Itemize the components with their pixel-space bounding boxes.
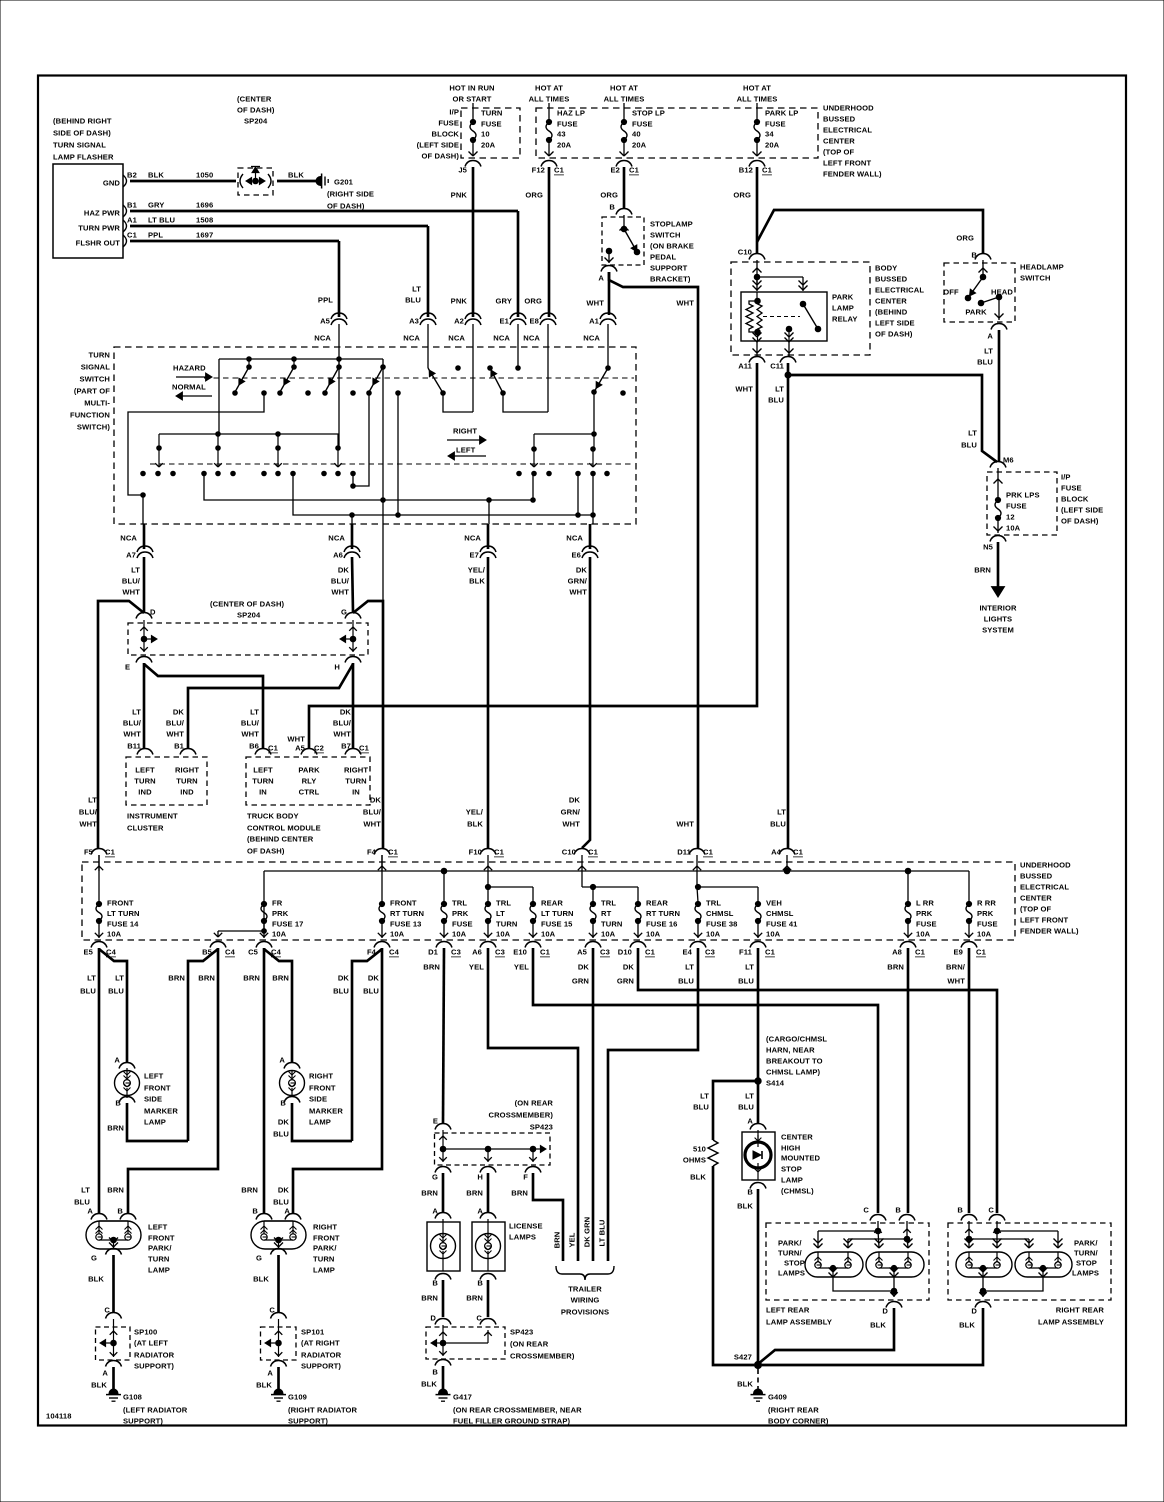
hazard switch levers: [247, 365, 252, 370]
svg-text:A3: A3: [409, 317, 419, 326]
underhood bussed electrical center top box: [536, 108, 818, 158]
svg-text:DK: DK: [338, 566, 350, 575]
svg-text:10A: 10A: [107, 930, 122, 939]
svg-text:BLU/: BLU/: [79, 808, 98, 817]
left rear lamp assembly box: [766, 1223, 929, 1300]
svg-text:LAMPS: LAMPS: [1072, 1269, 1099, 1278]
svg-text:BRN: BRN: [466, 1294, 483, 1303]
svg-text:C3: C3: [451, 948, 461, 957]
svg-text:TRAILER: TRAILER: [568, 1285, 602, 1294]
wire DK BLU right marker B to F4 link: [292, 1103, 352, 1141]
svg-text:YEL/: YEL/: [468, 566, 486, 575]
svg-text:PARK: PARK: [965, 308, 987, 317]
svg-text:10A: 10A: [766, 930, 781, 939]
svg-text:D11: D11: [677, 848, 691, 857]
svg-text:SWITCH: SWITCH: [79, 375, 110, 384]
svg-text:VEH: VEH: [766, 899, 782, 908]
wire ORG from E2 to stoplamp switch: [623, 167, 626, 209]
svg-text:E6: E6: [572, 551, 582, 560]
svg-text:(LEFT RADIATOR: (LEFT RADIATOR: [123, 1406, 188, 1415]
svg-text:BLU: BLU: [738, 1103, 754, 1112]
svg-text:TURN: TURN: [176, 777, 198, 786]
svg-text:INTERIOR: INTERIOR: [979, 604, 1016, 613]
wire branch D to F5: [98, 601, 144, 848]
wire BLK CHMSL B to S427: [757, 1189, 760, 1365]
svg-text:C1: C1: [976, 948, 987, 957]
svg-text:BLU: BLU: [273, 1198, 289, 1207]
trailer wiring provision stub DK GRN from A5: [592, 948, 595, 1261]
svg-text:S427: S427: [734, 1353, 752, 1362]
svg-text:SYSTEM: SYSTEM: [982, 626, 1014, 635]
svg-text:GRY: GRY: [496, 297, 512, 306]
svg-text:BUSSED: BUSSED: [823, 115, 856, 124]
svg-text:BLK: BLK: [91, 1381, 107, 1390]
FR PRK fuse branch to B5: [263, 904, 265, 921]
connector A headlamp switch: [991, 324, 1007, 330]
svg-text:NCA: NCA: [314, 334, 331, 343]
svg-text:ELECTRICAL: ELECTRICAL: [875, 286, 924, 295]
wire BRN/WHT E9 to right rear lamp B: [968, 948, 971, 1213]
svg-text:SIDE: SIDE: [144, 1095, 162, 1104]
wire YEL/BLK E7 to F10: [487, 557, 490, 848]
svg-text:FUSE: FUSE: [977, 920, 998, 929]
svg-text:10A: 10A: [977, 930, 992, 939]
svg-text:YEL: YEL: [469, 963, 484, 972]
svg-text:GRN/: GRN/: [561, 808, 581, 817]
connector F4 C4 out of UBEC: [374, 942, 390, 948]
pole5 contacts: [517, 471, 522, 476]
svg-text:C4: C4: [225, 948, 236, 957]
svg-text:WHT: WHT: [287, 735, 305, 744]
svg-text:G: G: [432, 1173, 438, 1182]
svg-text:BLK: BLK: [288, 171, 304, 180]
wire branch G to F4: [353, 601, 383, 848]
instrument cluster box: [126, 757, 207, 805]
svg-text:RT TURN: RT TURN: [390, 909, 424, 918]
fuse L RR PRK FUSE 10A in UBEC: [905, 901, 910, 906]
svg-text:A: A: [987, 332, 993, 341]
svg-text:BLK: BLK: [469, 577, 485, 586]
svg-text:(ON REAR CROSSMEMBER, NEAR: (ON REAR CROSSMEMBER, NEAR: [453, 1406, 582, 1415]
svg-text:YEL: YEL: [568, 1232, 577, 1247]
connector F10 C1 into UBEC: [480, 849, 496, 855]
svg-text:A: A: [87, 1207, 93, 1216]
svg-text:FUSE 14: FUSE 14: [107, 920, 139, 929]
svg-text:OF DASH): OF DASH): [237, 106, 275, 115]
fuse TRL CHMSL FUSE 38 10A in UBEC: [695, 901, 700, 906]
svg-text:B: B: [432, 1368, 438, 1377]
svg-text:RLY: RLY: [302, 777, 317, 786]
svg-text:LEFT FRONT: LEFT FRONT: [1020, 916, 1069, 925]
svg-text:(LEFT SIDE: (LEFT SIDE: [1061, 506, 1103, 515]
svg-text:HAZARD: HAZARD: [173, 364, 206, 373]
wire BRN C5 branch to right front side marker: [264, 949, 292, 1063]
svg-text:BLU: BLU: [977, 358, 993, 367]
svg-text:WHT: WHT: [166, 730, 184, 739]
svg-text:TURN: TURN: [89, 351, 111, 360]
svg-text:BLU/: BLU/: [363, 808, 382, 817]
svg-text:PRK: PRK: [916, 909, 933, 918]
svg-text:43: 43: [557, 130, 566, 139]
BBC internal node from C10: [756, 260, 758, 283]
svg-text:B2: B2: [127, 171, 137, 180]
svg-text:BLOCK: BLOCK: [1061, 495, 1089, 504]
svg-text:OHMS: OHMS: [683, 1156, 706, 1165]
stoplamp switch output contact A: [606, 248, 612, 254]
svg-text:WHT: WHT: [79, 820, 97, 829]
svg-text:OF DASH): OF DASH): [1061, 517, 1099, 526]
wire WHT stoplamp to D11: [609, 272, 698, 848]
wire LT BLU S414 branch to resistor: [713, 1081, 758, 1140]
wire BLK right lamp G to SP101: [277, 1255, 280, 1313]
wire WHT from A11 to A5 park rly ctrl: [309, 363, 757, 748]
svg-text:WHT: WHT: [241, 730, 259, 739]
svg-text:BLU: BLU: [678, 977, 694, 986]
ground G201 (right side of dash): [316, 174, 328, 189]
svg-text:PARK: PARK: [832, 293, 854, 302]
svg-text:40: 40: [632, 130, 641, 139]
connector F5 C1 into UBEC: [91, 849, 107, 855]
svg-text:FENDER WALL): FENDER WALL): [823, 170, 882, 179]
svg-text:WHT: WHT: [122, 588, 140, 597]
ground G417 (on rear crossmember near fuel filler ground strap): [436, 1389, 451, 1401]
svg-text:WHT: WHT: [363, 820, 381, 829]
svg-text:C5: C5: [248, 948, 259, 957]
svg-text:(AT LEFT: (AT LEFT: [134, 1339, 168, 1348]
wire DK BLU F4 to right front park/turn lamp A: [293, 948, 382, 1213]
svg-text:STOP: STOP: [784, 1259, 805, 1268]
svg-text:SP204: SP204: [237, 611, 261, 620]
fuse TRL PRK FUSE 10A in UBEC: [441, 901, 446, 906]
svg-text:OFF: OFF: [943, 288, 959, 297]
svg-text:S414: S414: [766, 1079, 785, 1088]
svg-text:PARK: PARK: [298, 766, 320, 775]
svg-text:LEFT SIDE: LEFT SIDE: [875, 319, 915, 328]
svg-text:SWITCH): SWITCH): [77, 423, 111, 432]
wire BRN F to trailer provisions: [533, 1173, 563, 1261]
svg-text:(ON BRAKE: (ON BRAKE: [650, 242, 694, 251]
u-link lever tip to ORG: [503, 393, 548, 412]
connector M6: [990, 462, 1006, 468]
svg-text:SUPPORT): SUPPORT): [301, 1362, 341, 1371]
svg-text:BLU/: BLU/: [241, 719, 260, 728]
svg-text:PRK: PRK: [272, 909, 289, 918]
svg-text:G: G: [256, 1254, 262, 1263]
fuse REAR RT TURN FUSE 16 10A in UBEC: [635, 901, 640, 906]
svg-text:PRK: PRK: [452, 909, 469, 918]
svg-text:1697: 1697: [196, 231, 213, 240]
svg-text:C1: C1: [388, 848, 399, 857]
svg-text:C1: C1: [554, 166, 565, 175]
right rear internal wiring: [968, 1221, 970, 1239]
svg-text:10A: 10A: [646, 930, 661, 939]
svg-text:C3: C3: [600, 948, 610, 957]
svg-text:BRN/: BRN/: [946, 963, 966, 972]
svg-text:DK: DK: [278, 1186, 290, 1195]
svg-text:M6: M6: [1003, 456, 1014, 465]
connector E4 C3 out of UBEC: [690, 942, 706, 948]
svg-text:NCA: NCA: [583, 334, 600, 343]
connector C11: [780, 357, 796, 363]
svg-text:10A: 10A: [706, 930, 721, 939]
connector H: [480, 1167, 496, 1173]
connector N5: [990, 536, 1006, 542]
svg-text:ORG: ORG: [956, 234, 974, 243]
svg-text:TRL: TRL: [706, 899, 721, 908]
svg-text:DK GRN: DK GRN: [583, 1217, 592, 1248]
SP204 internal splice left: [143, 620, 145, 652]
connector B left rear: [899, 1215, 915, 1221]
wire HAZ PWR B1 GRY 1696: [130, 210, 518, 213]
svg-text:UNDERHOOD: UNDERHOOD: [823, 104, 874, 113]
svg-text:BLU: BLU: [405, 296, 421, 305]
svg-text:G409: G409: [768, 1393, 787, 1402]
svg-text:TURN: TURN: [313, 1255, 335, 1264]
wire E crossover to B6: [144, 664, 263, 748]
svg-text:B: B: [971, 251, 977, 260]
svg-text:A1: A1: [127, 216, 138, 225]
svg-text:CENTER: CENTER: [875, 297, 907, 306]
svg-text:(ON REAR: (ON REAR: [510, 1340, 549, 1349]
svg-text:B: B: [895, 1206, 901, 1215]
splice SP101 (at right radiator support): [261, 1327, 297, 1360]
connector F4 C1 into UBEC: [374, 849, 390, 855]
svg-text:F: F: [523, 1173, 528, 1182]
svg-text:(CHMSL): (CHMSL): [781, 1187, 814, 1196]
svg-text:C10: C10: [738, 248, 752, 257]
svg-text:FUNCTION: FUNCTION: [70, 411, 110, 420]
connector A5 NCA: [331, 313, 347, 319]
svg-text:BODY CORNER): BODY CORNER): [768, 1417, 829, 1426]
svg-text:TRL: TRL: [601, 899, 616, 908]
svg-text:A: A: [747, 1117, 753, 1126]
svg-text:LT: LT: [131, 566, 140, 575]
svg-text:CTRL: CTRL: [299, 788, 320, 797]
svg-text:MOUNTED: MOUNTED: [781, 1154, 821, 1163]
svg-text:HIGH: HIGH: [781, 1144, 800, 1153]
svg-text:LT: LT: [775, 385, 784, 394]
wire BLK to G417: [442, 1366, 445, 1393]
svg-text:FRONT: FRONT: [144, 1084, 171, 1093]
svg-text:FUSE: FUSE: [765, 120, 786, 129]
svg-text:HOT AT: HOT AT: [743, 84, 771, 93]
svg-text:SWITCH: SWITCH: [1020, 274, 1051, 283]
svg-text:A6: A6: [472, 948, 482, 957]
svg-text:BLK: BLK: [959, 1321, 975, 1330]
svg-text:YEL/: YEL/: [466, 808, 484, 817]
svg-text:SP100: SP100: [134, 1328, 157, 1337]
svg-text:IN: IN: [259, 788, 267, 797]
svg-text:C1: C1: [703, 848, 714, 857]
svg-text:LT: LT: [745, 1092, 754, 1101]
svg-text:B12: B12: [739, 166, 753, 175]
connector H: [345, 657, 361, 663]
svg-text:ORG: ORG: [524, 297, 542, 306]
svg-text:LT: LT: [81, 1186, 90, 1195]
svg-text:BLK: BLK: [870, 1321, 886, 1330]
svg-text:C1: C1: [268, 744, 279, 753]
svg-text:A2: A2: [454, 317, 464, 326]
svg-text:B: B: [747, 1188, 753, 1197]
connector A6 C3 out of UBEC: [480, 942, 496, 948]
svg-text:(CENTER: (CENTER: [237, 95, 272, 104]
svg-text:WHT: WHT: [562, 820, 580, 829]
svg-text:BLU: BLU: [770, 820, 786, 829]
right rear lamp bottom bus: [983, 1277, 1043, 1291]
svg-text:A: A: [279, 1056, 285, 1065]
switch internal dashed line hazard: [204, 377, 634, 379]
svg-text:OF DASH): OF DASH): [421, 152, 459, 161]
svg-text:A: A: [114, 1056, 120, 1065]
svg-text:D: D: [971, 1307, 977, 1316]
svg-text:TURN: TURN: [496, 920, 518, 929]
svg-text:WHT: WHT: [676, 299, 694, 308]
svg-text:BRN: BRN: [421, 1189, 438, 1198]
svg-text:BRN: BRN: [243, 974, 260, 983]
svg-text:C1: C1: [793, 848, 804, 857]
svg-text:NCA: NCA: [523, 334, 540, 343]
svg-text:NCA: NCA: [120, 534, 137, 543]
svg-text:E7: E7: [470, 551, 480, 560]
connector A SP101: [271, 1361, 287, 1367]
svg-text:BLU/: BLU/: [122, 577, 141, 586]
svg-text:C1: C1: [645, 948, 656, 957]
svg-text:C10: C10: [562, 848, 576, 857]
svg-text:E: E: [125, 663, 130, 672]
connector E8 NCA on ORG: [540, 313, 556, 319]
svg-text:20A: 20A: [765, 141, 780, 150]
ground G108 (left radiator support): [106, 1389, 121, 1401]
svg-text:B: B: [609, 203, 615, 212]
svg-text:LAMP: LAMP: [832, 304, 854, 313]
svg-text:FUSE: FUSE: [438, 119, 459, 128]
connector B11: [137, 749, 153, 755]
svg-text:(BEHIND RIGHT: (BEHIND RIGHT: [53, 117, 112, 126]
svg-text:NCA: NCA: [464, 534, 481, 543]
svg-text:B: B: [280, 1099, 286, 1108]
svg-text:GND: GND: [103, 179, 121, 188]
svg-text:DK: DK: [623, 963, 635, 972]
svg-text:WHT: WHT: [331, 588, 349, 597]
svg-text:OF DASH): OF DASH): [875, 330, 913, 339]
svg-text:LAMP: LAMP: [309, 1118, 331, 1127]
svg-text:FLSHR OUT: FLSHR OUT: [76, 239, 121, 248]
svg-text:STOP: STOP: [1076, 1259, 1097, 1268]
connector A8 C1 out of UBEC: [900, 942, 916, 948]
svg-text:BLU/: BLU/: [331, 577, 350, 586]
wire BLK S427 to G409 dashed: [757, 1369, 759, 1391]
wire LT BLU from C11 to A4 and M6: [787, 363, 790, 848]
connector E9 C1 out of UBEC: [961, 942, 977, 948]
svg-text:BRN: BRN: [887, 963, 904, 972]
svg-text:TRL: TRL: [452, 899, 467, 908]
svg-text:STOPLAMP: STOPLAMP: [650, 220, 693, 229]
svg-text:C1: C1: [494, 848, 505, 857]
wire BLK to G201: [277, 180, 317, 183]
svg-text:L RR: L RR: [916, 899, 934, 908]
wire H to B7: [352, 663, 355, 748]
svg-text:SP101: SP101: [301, 1328, 325, 1337]
svg-text:BRN: BRN: [107, 1124, 124, 1133]
svg-text:FRONT: FRONT: [148, 1234, 175, 1243]
svg-text:CENTER: CENTER: [1020, 894, 1052, 903]
connector B1: [180, 749, 196, 755]
svg-text:C1: C1: [127, 231, 138, 240]
svg-text:C: C: [988, 1206, 994, 1215]
svg-text:FUSE 38: FUSE 38: [706, 920, 738, 929]
svg-text:TURN: TURN: [252, 777, 274, 786]
connector B6 C1: [255, 749, 271, 755]
svg-text:MARKER: MARKER: [144, 1107, 178, 1116]
svg-text:PNK: PNK: [451, 297, 468, 306]
svg-text:TURN: TURN: [601, 920, 623, 929]
svg-text:LT: LT: [412, 285, 421, 294]
svg-text:PRK LPS: PRK LPS: [1006, 491, 1040, 500]
svg-text:B11: B11: [127, 742, 141, 751]
wire DK BLU F4 branch marker link: [352, 949, 382, 1141]
wire BRN A8 to left rear lamp B: [907, 948, 910, 1213]
svg-text:B: B: [432, 1279, 438, 1288]
svg-text:FUSE 17: FUSE 17: [272, 920, 304, 929]
svg-text:10A: 10A: [916, 930, 931, 939]
svg-text:BUSSED: BUSSED: [1020, 872, 1053, 881]
svg-text:SIDE OF DASH): SIDE OF DASH): [53, 129, 111, 138]
left rear internal wiring: [877, 1221, 879, 1231]
svg-text:PARK/: PARK/: [313, 1244, 337, 1253]
I/P fuse block box (left side of dash): [461, 108, 520, 158]
fuse TRL LT TURN 10A in UBEC: [485, 901, 490, 906]
svg-text:FRONT: FRONT: [390, 899, 417, 908]
connector E10 C1 out of UBEC: [525, 942, 541, 948]
svg-text:ALL TIMES: ALL TIMES: [529, 95, 570, 104]
right rear lamp assembly box: [948, 1223, 1111, 1300]
svg-text:TURN PWR: TURN PWR: [78, 224, 120, 233]
pole6 chain: [593, 434, 595, 449]
svg-text:TRL: TRL: [496, 899, 511, 908]
left rear lamp bottom bus: [833, 1277, 894, 1291]
wire GND B2 BLK 1050: [130, 180, 236, 183]
u-link lever tip to PNK: [443, 393, 473, 412]
connector J5: [465, 161, 481, 167]
svg-text:LAMP: LAMP: [148, 1266, 170, 1275]
svg-text:A5: A5: [577, 948, 588, 957]
wire BRN license right to C: [487, 1280, 490, 1317]
svg-text:ALL TIMES: ALL TIMES: [737, 95, 778, 104]
svg-text:INSTRUMENT: INSTRUMENT: [127, 812, 178, 821]
wire DK BLU/WHT A6 to G: [352, 557, 353, 612]
trailer provisions brace: [556, 1266, 614, 1280]
svg-text:(AT RIGHT: (AT RIGHT: [301, 1339, 340, 1348]
svg-text:104118: 104118: [46, 1412, 72, 1421]
svg-text:BREAKOUT TO: BREAKOUT TO: [766, 1057, 823, 1066]
svg-text:BLK: BLK: [253, 1275, 269, 1284]
svg-text:BRN: BRN: [272, 974, 289, 983]
splice SP423 (on rear crossmember) bottom box: [426, 1327, 505, 1359]
wire BRN left marker B to B5 link: [127, 1103, 188, 1141]
svg-text:PPL: PPL: [148, 231, 163, 240]
svg-text:10A: 10A: [272, 930, 287, 939]
svg-text:E1: E1: [500, 317, 510, 326]
svg-text:LT BLU: LT BLU: [598, 1219, 607, 1246]
svg-text:(RIGHT RADIATOR: (RIGHT RADIATOR: [288, 1406, 358, 1415]
svg-text:FUEL FILLER GROUND STRAP): FUEL FILLER GROUND STRAP): [453, 1417, 570, 1426]
wire LT BLU F11 to S414: [757, 948, 760, 1081]
node link lever4 tip to pole4 contact: [351, 484, 356, 489]
svg-text:(CENTER OF DASH): (CENTER OF DASH): [210, 600, 285, 609]
svg-text:G109: G109: [288, 1393, 307, 1402]
svg-text:LIGHTS: LIGHTS: [984, 615, 1012, 624]
turn signal switch box (part of multi-function switch): [114, 347, 636, 524]
